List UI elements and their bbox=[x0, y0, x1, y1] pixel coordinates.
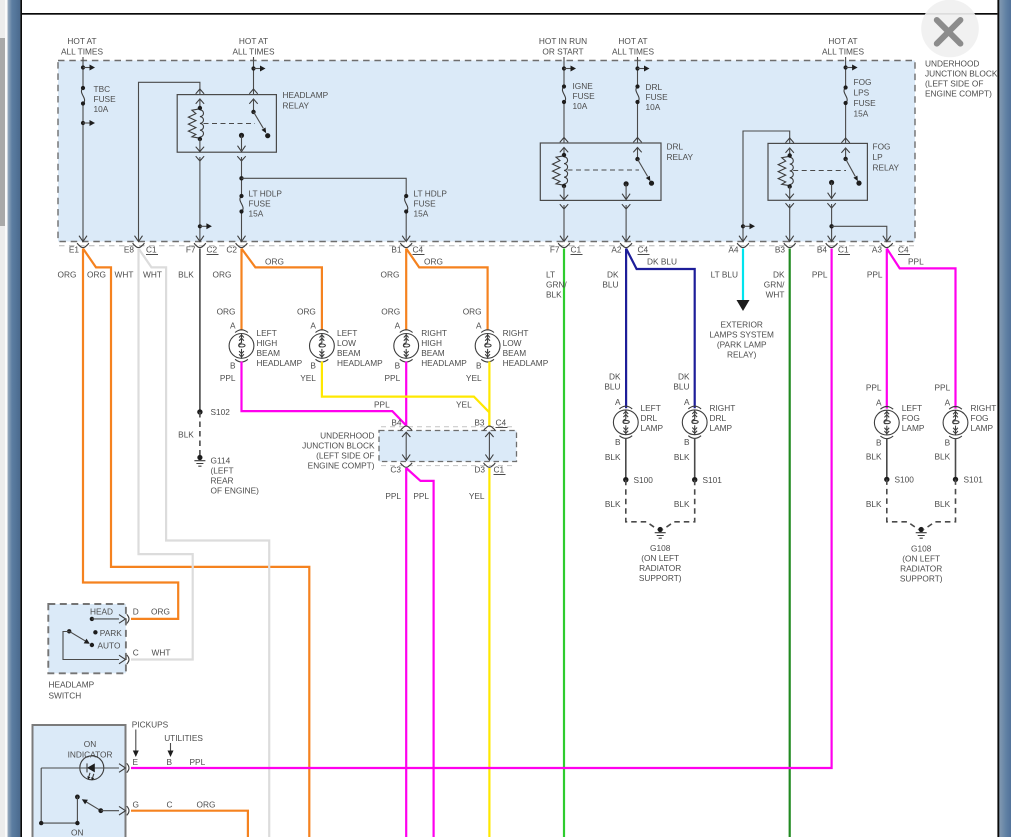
svg-text:DRL: DRL bbox=[710, 413, 727, 423]
svg-text:LEFT: LEFT bbox=[641, 403, 661, 413]
svg-text:G: G bbox=[133, 800, 139, 810]
pin: FOG relay top chevrons bbox=[786, 138, 794, 143]
svg-text:AUTO: AUTO bbox=[98, 641, 121, 651]
svg-text:F7: F7 bbox=[550, 245, 560, 255]
svg-text:SUPPORT): SUPPORT) bbox=[639, 573, 682, 583]
svg-text:(LEFT: (LEFT bbox=[211, 466, 234, 476]
svg-text:ORG: ORG bbox=[217, 307, 236, 317]
svg-text:RELAY: RELAY bbox=[873, 163, 900, 173]
wire: ORG E1 branch down page bbox=[83, 249, 309, 837]
svg-text:S101: S101 bbox=[703, 475, 723, 485]
svg-text:D3: D3 bbox=[474, 465, 485, 475]
svg-text:(PARK LAMP: (PARK LAMP bbox=[717, 340, 767, 350]
svg-text:FUSE: FUSE bbox=[573, 91, 596, 101]
wire: IGN E feed bbox=[563, 57, 565, 87]
svg-text:C1: C1 bbox=[571, 245, 582, 255]
svg-text:HEADLAMP: HEADLAMP bbox=[257, 358, 303, 368]
svg-text:HOT AT: HOT AT bbox=[239, 36, 268, 46]
pin D connector bbox=[119, 614, 129, 623]
svg-text:FOG: FOG bbox=[873, 142, 891, 152]
wire: BLK F7/C2 to S102 bbox=[199, 249, 201, 413]
wire: PPL C3 branch down page bbox=[406, 468, 433, 837]
svg-text:B3: B3 bbox=[775, 245, 786, 255]
pin C3 exit bbox=[400, 463, 412, 468]
svg-text:SUPPORT): SUPPORT) bbox=[900, 574, 943, 584]
svg-text:BLK: BLK bbox=[935, 452, 951, 462]
svg-text:RIGHT: RIGHT bbox=[710, 403, 736, 413]
pin: FOG relay bottom exits bbox=[786, 194, 794, 199]
wire: FOG LPS fuse feed bbox=[845, 57, 847, 88]
underhood junction block (left side of engine compt) bbox=[58, 61, 915, 246]
fuse IGN E FUSE 10A bbox=[562, 84, 566, 104]
lamp: RIGHT FOG LAMP bbox=[935, 383, 951, 408]
svg-text:HEADLAMP: HEADLAMP bbox=[337, 358, 383, 368]
svg-text:B: B bbox=[395, 361, 401, 371]
wire: BLK right fog to S101 bbox=[955, 438, 957, 479]
svg-text:BEAM: BEAM bbox=[257, 348, 281, 358]
relay output contact bbox=[829, 180, 834, 185]
wire: LT BLU A4 to exterior lamps system bbox=[742, 249, 744, 302]
svg-text:(ON LEFT: (ON LEFT bbox=[902, 554, 940, 564]
node: EXTERIOR LAMPS SYSTEM arrow bbox=[737, 300, 750, 311]
svg-text:IGNE: IGNE bbox=[573, 81, 594, 91]
svg-text:UNDERHOOD: UNDERHOOD bbox=[320, 431, 374, 441]
switch blade (headlamp switch) bbox=[67, 629, 71, 633]
pin: DRL relay top chevrons bbox=[560, 138, 568, 143]
svg-text:ORG: ORG bbox=[265, 257, 284, 267]
svg-text:10A: 10A bbox=[573, 101, 588, 111]
led: ON indicator lamp bbox=[80, 756, 104, 780]
relay coil (headlamp relay) bbox=[199, 99, 201, 108]
svg-text:PPL: PPL bbox=[385, 373, 401, 383]
svg-text:LPS: LPS bbox=[854, 88, 870, 98]
left frame line bbox=[20, 0, 22, 837]
lamp: LEFT FOG LAMP bbox=[866, 383, 882, 408]
svg-text:JUNCTION BLOCK: JUNCTION BLOCK bbox=[925, 69, 998, 79]
svg-text:A4: A4 bbox=[728, 245, 739, 255]
wire: pass-through arrows inside block 2 bbox=[402, 432, 494, 460]
svg-text:HEADLAMP: HEADLAMP bbox=[421, 358, 467, 368]
svg-text:DK BLU: DK BLU bbox=[647, 257, 677, 267]
wire: BLK dashed to ground bbox=[199, 412, 201, 455]
svg-text:FUSE: FUSE bbox=[94, 94, 117, 104]
svg-text:BLK: BLK bbox=[866, 452, 882, 462]
fuse FOG LPS FUSE 15A bbox=[844, 85, 848, 105]
node: splice S101 (fog) bbox=[953, 477, 958, 482]
svg-text:C4: C4 bbox=[496, 418, 507, 428]
svg-text:C4: C4 bbox=[413, 245, 424, 255]
relay output contact bbox=[624, 181, 629, 186]
switch blade (ON indicator) bbox=[75, 795, 80, 800]
svg-text:WHT: WHT bbox=[766, 290, 785, 300]
svg-text:LT HDLP: LT HDLP bbox=[414, 189, 448, 199]
svg-text:YEL: YEL bbox=[469, 491, 485, 501]
wire: WHT E8 to headlamp switch C bbox=[131, 249, 193, 660]
svg-text:ENGINE COMPT): ENGINE COMPT) bbox=[925, 89, 992, 99]
svg-text:B: B bbox=[684, 437, 690, 447]
svg-text:HOT AT: HOT AT bbox=[67, 36, 96, 46]
svg-text:BEAM: BEAM bbox=[337, 348, 361, 358]
wire: PPL branch to right fog lamp bbox=[887, 249, 956, 409]
relay output contact bbox=[239, 133, 244, 138]
pin: relay bottom exits bbox=[196, 147, 204, 152]
svg-text:15A: 15A bbox=[414, 209, 429, 219]
svg-text:LAMPS SYSTEM: LAMPS SYSTEM bbox=[709, 330, 774, 340]
relay switch blade (headlamp relay) bbox=[253, 99, 255, 112]
svg-text:RADIATOR: RADIATOR bbox=[900, 564, 942, 574]
svg-text:DRL: DRL bbox=[646, 82, 663, 92]
wire: BLK left DRL to S100 bbox=[625, 438, 627, 480]
svg-text:LEFT: LEFT bbox=[257, 328, 277, 338]
wire: branch to right LT HDLP fuse bbox=[242, 178, 407, 196]
svg-text:B4: B4 bbox=[817, 245, 828, 255]
svg-text:E: E bbox=[133, 757, 139, 767]
node: splice S102 bbox=[197, 409, 202, 414]
svg-text:PPL: PPL bbox=[935, 383, 951, 393]
svg-text:PPL: PPL bbox=[413, 491, 429, 501]
svg-text:BEAM: BEAM bbox=[503, 348, 527, 358]
left slate bar bbox=[8, 0, 21, 837]
svg-text:RIGHT: RIGHT bbox=[971, 403, 997, 413]
wire: TBC feed bbox=[82, 57, 84, 88]
svg-text:C2: C2 bbox=[207, 245, 218, 255]
svg-text:RADIATOR: RADIATOR bbox=[639, 563, 681, 573]
svg-text:BLU: BLU bbox=[604, 382, 620, 392]
svg-text:YEL: YEL bbox=[300, 373, 316, 383]
svg-text:A: A bbox=[395, 321, 401, 331]
svg-text:LAMP: LAMP bbox=[971, 423, 994, 433]
svg-text:RIGHT: RIGHT bbox=[421, 328, 447, 338]
wire: ORG C2 to left high beam bbox=[240, 249, 242, 331]
svg-text:LAMP: LAMP bbox=[902, 423, 925, 433]
label: UNDERHOOD JUNCTION BLOCK bbox=[925, 59, 998, 99]
wire: BLK left fog to S100 bbox=[886, 438, 888, 479]
svg-text:B: B bbox=[945, 437, 951, 447]
svg-text:RELAY): RELAY) bbox=[727, 350, 757, 360]
pin B3/C4 entry bbox=[484, 426, 496, 431]
pin labels E1 E8/C1 F7/C2 C2 B1/C4 bbox=[69, 245, 883, 255]
svg-text:FOG: FOG bbox=[902, 413, 920, 423]
pin C connector bbox=[119, 655, 129, 664]
svg-text:SWITCH: SWITCH bbox=[49, 691, 82, 701]
svg-text:FOG: FOG bbox=[971, 413, 989, 423]
svg-text:BLK: BLK bbox=[935, 499, 951, 509]
ground G108 (DRL) bbox=[655, 527, 666, 538]
op: FOG LP relay box U3 bbox=[768, 143, 867, 200]
svg-text:15A: 15A bbox=[854, 109, 869, 119]
right frame line bbox=[997, 0, 999, 837]
svg-text:HEAD: HEAD bbox=[90, 607, 113, 617]
svg-text:UNDERHOOD: UNDERHOOD bbox=[925, 59, 979, 69]
svg-text:A: A bbox=[876, 397, 882, 407]
label: UNDERHOOD JUNCTION BLOCK 2 bbox=[302, 431, 375, 471]
svg-text:PPL: PPL bbox=[866, 383, 882, 393]
lamp: RIGHT DRL LAMP bbox=[673, 372, 690, 408]
wire: F7/C1 coil output bbox=[563, 205, 565, 241]
relay switch blade (DRL relay) bbox=[637, 148, 639, 160]
svg-text:EXTERIOR: EXTERIOR bbox=[720, 320, 762, 330]
svg-text:OR START: OR START bbox=[542, 47, 583, 57]
svg-text:(ON LEFT: (ON LEFT bbox=[641, 553, 679, 563]
svg-text:DK: DK bbox=[773, 270, 785, 280]
svg-text:PPL: PPL bbox=[812, 270, 828, 280]
fuse LT HDLP FUSE 15A (left) bbox=[239, 194, 243, 214]
pin: relay switch pin chevrons bbox=[249, 89, 257, 94]
top frame line bbox=[22, 13, 997, 15]
wire: indicator return to pivot bbox=[41, 768, 77, 823]
svg-text:WHT: WHT bbox=[115, 270, 134, 280]
svg-text:WHT: WHT bbox=[152, 648, 171, 658]
svg-text:ORG: ORG bbox=[58, 270, 77, 280]
svg-text:LEFT: LEFT bbox=[902, 403, 922, 413]
svg-text:LOW: LOW bbox=[503, 338, 522, 348]
relay switch blade (FOG LP relay) bbox=[845, 148, 847, 159]
wire: PPL A3/C4 to left fog lamp bbox=[886, 249, 888, 409]
wire: E8 coil feed bbox=[139, 82, 200, 241]
svg-text:B4: B4 bbox=[391, 418, 402, 428]
relay coil (FOG LP relay) bbox=[789, 148, 791, 156]
svg-text:S100: S100 bbox=[895, 475, 915, 485]
wire: YEL left low beam B to B3 bbox=[322, 362, 490, 426]
wire: C2 relay output to connector bbox=[241, 157, 243, 196]
svg-text:FOG: FOG bbox=[854, 77, 872, 87]
svg-text:FUSE: FUSE bbox=[854, 98, 877, 108]
svg-text:ORG: ORG bbox=[381, 270, 400, 280]
svg-text:DRL: DRL bbox=[641, 413, 658, 423]
svg-text:BLK: BLK bbox=[546, 290, 562, 300]
wire: HEAD to connector D bbox=[92, 618, 119, 620]
wire: WHT E8 branch down page bbox=[139, 249, 270, 837]
headlamp switch box bbox=[48, 604, 126, 673]
wire: ORG E1 to headlamp switch D bbox=[83, 249, 178, 619]
svg-text:PARK: PARK bbox=[100, 628, 122, 638]
wire: pivot to connector C bbox=[63, 632, 119, 660]
node: HOT AT ALL TIMES (headlamp relay) bbox=[233, 36, 275, 57]
svg-text:ENGINE COMPT): ENGINE COMPT) bbox=[308, 461, 375, 471]
svg-text:LEFT: LEFT bbox=[337, 328, 357, 338]
wire: ORG B1/C4 branch to right low beam bbox=[406, 249, 487, 331]
svg-text:BLK: BLK bbox=[674, 499, 690, 509]
svg-text:ORG: ORG bbox=[197, 800, 216, 810]
svg-text:BLK: BLK bbox=[866, 499, 882, 509]
svg-text:WHT: WHT bbox=[143, 270, 162, 280]
svg-text:BLK: BLK bbox=[178, 270, 194, 280]
svg-text:RELAY: RELAY bbox=[283, 101, 310, 111]
svg-text:ORG: ORG bbox=[424, 257, 443, 267]
node: feed tap E1 bbox=[81, 65, 95, 71]
svg-text:HOT AT: HOT AT bbox=[618, 36, 647, 46]
node: tap below TBC fuse bbox=[81, 120, 95, 126]
svg-text:C4: C4 bbox=[898, 245, 909, 255]
lamp: RIGHT LOW BEAM HEADLAMP bbox=[475, 330, 500, 362]
svg-text:RELAY: RELAY bbox=[667, 152, 694, 162]
svg-text:E1: E1 bbox=[69, 245, 80, 255]
svg-text:LT BLU: LT BLU bbox=[711, 270, 738, 280]
wire: fog output to B4 and A3 bbox=[831, 204, 833, 241]
op: headlamp relay box U1 bbox=[177, 95, 276, 153]
svg-text:D: D bbox=[133, 607, 139, 617]
svg-text:LAMP: LAMP bbox=[641, 423, 664, 433]
svg-text:LOW: LOW bbox=[337, 338, 356, 348]
svg-text:DRL: DRL bbox=[667, 142, 684, 152]
lamp: LEFT HIGH BEAM HEADLAMP bbox=[229, 330, 254, 362]
node: splice S100 (fog) bbox=[884, 477, 889, 482]
pin: relay coil pin chevrons bbox=[196, 89, 204, 94]
wire: F7 relay coil to connector bbox=[199, 157, 201, 241]
svg-text:B: B bbox=[615, 437, 621, 447]
pin arrows at junction block bottom border bbox=[79, 236, 891, 242]
connector names C1 C2 C4 C1 C4 C1 C4 (underlined) bbox=[146, 245, 910, 255]
svg-text:FUSE: FUSE bbox=[249, 199, 272, 209]
svg-text:ORG: ORG bbox=[87, 270, 106, 280]
connector cups at junction block bottom border bbox=[77, 243, 893, 248]
pin G connector bbox=[119, 806, 129, 815]
svg-text:PPL: PPL bbox=[374, 400, 390, 410]
pin: DRL relay bottom exits bbox=[560, 195, 568, 200]
svg-text:A: A bbox=[945, 397, 951, 407]
wire: DK GRN B3 down page bbox=[789, 249, 791, 837]
svg-text:E8: E8 bbox=[124, 245, 135, 255]
svg-text:A: A bbox=[476, 321, 482, 331]
relay coil (DRL relay) bbox=[563, 148, 565, 156]
svg-text:B: B bbox=[310, 361, 316, 371]
svg-text:C4: C4 bbox=[638, 245, 649, 255]
svg-text:FUSE: FUSE bbox=[646, 92, 669, 102]
node: LT HDLP branch junction bbox=[239, 176, 243, 180]
svg-text:PPL: PPL bbox=[385, 491, 401, 501]
wire: DK BLU A2/C4 to left DRL lamp bbox=[625, 249, 627, 409]
wire: BLK dashed S100/S101 to G108 bbox=[626, 480, 658, 530]
svg-text:PPL: PPL bbox=[908, 257, 924, 267]
fuse LT HDLP FUSE 15A (right) bbox=[404, 194, 408, 214]
svg-text:BLK: BLK bbox=[605, 499, 621, 509]
svg-text:C1: C1 bbox=[838, 245, 849, 255]
ground G114 bbox=[194, 455, 205, 466]
svg-text:OF ENGINE): OF ENGINE) bbox=[211, 486, 260, 496]
svg-text:ORG: ORG bbox=[297, 307, 316, 317]
op: DRL relay box U2 bbox=[540, 143, 661, 200]
wire: YEL D3/C1 down page bbox=[488, 468, 490, 837]
node: HOT AT ALL TIMES (fog fuse) bbox=[822, 36, 864, 57]
wire: dashed actuation link bbox=[204, 123, 256, 125]
svg-text:B: B bbox=[876, 437, 882, 447]
wire: headlamp relay switch feed bbox=[253, 57, 255, 95]
svg-text:REAR: REAR bbox=[211, 476, 234, 486]
svg-text:B: B bbox=[167, 757, 173, 767]
underhood junction block 2 bbox=[379, 427, 517, 466]
svg-text:B: B bbox=[230, 361, 236, 371]
fuse TBC FUSE 10A bbox=[81, 86, 85, 106]
fuse DRL FUSE 10A bbox=[635, 84, 639, 104]
svg-text:(LEFT SIDE OF: (LEFT SIDE OF bbox=[316, 451, 374, 461]
svg-text:LAMP: LAMP bbox=[710, 423, 733, 433]
svg-text:ORG: ORG bbox=[213, 270, 232, 280]
node: splice S100 (DRL) bbox=[623, 477, 628, 482]
svg-text:HEADLAMP: HEADLAMP bbox=[503, 358, 549, 368]
svg-text:ALL TIMES: ALL TIMES bbox=[61, 47, 103, 57]
svg-text:UTILITIES: UTILITIES bbox=[164, 733, 203, 743]
svg-text:C1: C1 bbox=[146, 245, 157, 255]
svg-text:B: B bbox=[476, 361, 482, 371]
node: HOT IN RUN OR START bbox=[539, 36, 587, 57]
svg-text:HIGH: HIGH bbox=[257, 338, 278, 348]
wire: LT GRN F7/C1 down page bbox=[563, 249, 565, 837]
svg-text:HEADLAMP: HEADLAMP bbox=[49, 680, 95, 690]
svg-text:DK: DK bbox=[678, 372, 690, 382]
svg-text:15A: 15A bbox=[249, 209, 264, 219]
wire: DK BLU branch to right DRL lamp bbox=[626, 249, 695, 409]
svg-text:BLU: BLU bbox=[602, 280, 618, 290]
wire: DRL fuse feed bbox=[637, 57, 639, 87]
svg-text:BLK: BLK bbox=[674, 452, 690, 462]
svg-text:C1: C1 bbox=[494, 465, 505, 475]
svg-text:HIGH: HIGH bbox=[421, 338, 442, 348]
lamp: RIGHT HIGH BEAM HEADLAMP bbox=[394, 330, 419, 362]
lamp: LEFT DRL LAMP bbox=[604, 372, 621, 408]
wire: PPL C3 down page bbox=[405, 468, 407, 837]
svg-text:LP: LP bbox=[873, 152, 884, 162]
svg-text:A: A bbox=[684, 397, 690, 407]
lamp: LEFT LOW BEAM HEADLAMP bbox=[310, 330, 335, 362]
ground G108 (fog) bbox=[916, 527, 927, 538]
wire: BLK right DRL to S101 bbox=[694, 438, 696, 480]
wire: blade contact to connector G bbox=[101, 810, 119, 812]
svg-text:ON: ON bbox=[84, 739, 96, 749]
svg-text:PICKUPS: PICKUPS bbox=[132, 719, 169, 729]
svg-text:(LEFT SIDE OF: (LEFT SIDE OF bbox=[925, 79, 983, 89]
svg-text:DK: DK bbox=[609, 372, 621, 382]
svg-text:ALL TIMES: ALL TIMES bbox=[822, 47, 864, 57]
pin B4 entry bbox=[400, 426, 412, 431]
svg-text:A: A bbox=[310, 321, 316, 331]
svg-text:INDICATOR: INDICATOR bbox=[68, 750, 113, 760]
svg-text:BLU: BLU bbox=[673, 382, 689, 392]
ON indicator box bbox=[33, 725, 126, 837]
svg-text:BEAM: BEAM bbox=[421, 348, 445, 358]
svg-text:RIGHT: RIGHT bbox=[503, 328, 529, 338]
svg-text:10A: 10A bbox=[94, 104, 109, 114]
node: PARK contact bbox=[93, 630, 97, 634]
node: splice S101 (DRL) bbox=[692, 477, 697, 482]
svg-text:A: A bbox=[230, 321, 236, 331]
svg-text:C: C bbox=[133, 648, 139, 658]
wire: ORG B1/C4 to right high beam bbox=[405, 249, 407, 331]
node: HOT AT ALL TIMES (TBC) bbox=[61, 36, 103, 57]
svg-text:HOT AT: HOT AT bbox=[828, 36, 857, 46]
wire: YEL right low beam B to B3 bbox=[488, 362, 490, 426]
wire: PPL right high beam B to B4 bbox=[405, 362, 407, 426]
wire: ORG G down page bbox=[131, 811, 248, 837]
wire: A2/C4 switch output bbox=[625, 205, 627, 241]
svg-text:HEADLAMP: HEADLAMP bbox=[283, 90, 329, 100]
svg-text:ORG: ORG bbox=[381, 307, 400, 317]
svg-text:TBC: TBC bbox=[94, 84, 111, 94]
right slate bar bbox=[999, 0, 1011, 837]
wire: BLK dashed fog splices to G108 bbox=[887, 479, 919, 529]
svg-text:10A: 10A bbox=[646, 102, 661, 112]
svg-text:C: C bbox=[167, 800, 173, 810]
svg-text:BLK: BLK bbox=[178, 430, 194, 440]
wire: B3 coil output bbox=[789, 204, 791, 241]
svg-text:C2: C2 bbox=[226, 245, 237, 255]
svg-text:G108: G108 bbox=[650, 543, 671, 553]
svg-text:ALL TIMES: ALL TIMES bbox=[233, 47, 275, 57]
svg-text:FUSE: FUSE bbox=[414, 199, 437, 209]
svg-text:YEL: YEL bbox=[466, 373, 482, 383]
svg-text:A2: A2 bbox=[611, 245, 622, 255]
svg-text:PPL: PPL bbox=[190, 757, 206, 767]
svg-text:YEL: YEL bbox=[456, 400, 472, 410]
